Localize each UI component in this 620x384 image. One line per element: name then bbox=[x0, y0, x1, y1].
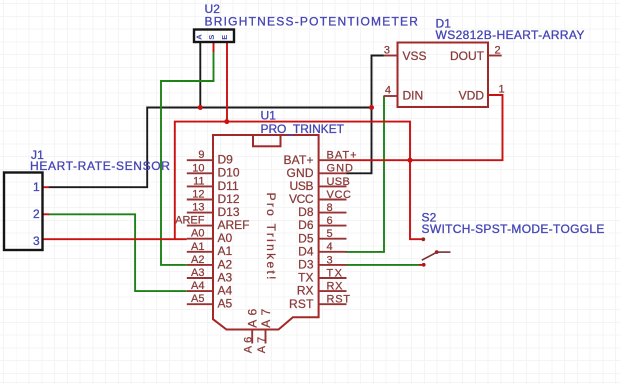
svg-text:RST: RST bbox=[327, 294, 351, 306]
svg-text:4: 4 bbox=[327, 241, 333, 253]
svg-text:USB: USB bbox=[327, 176, 350, 188]
svg-text:GND: GND bbox=[327, 163, 354, 175]
svg-text:GND: GND bbox=[287, 166, 314, 180]
svg-text:9: 9 bbox=[198, 149, 204, 161]
svg-text:3: 3 bbox=[33, 234, 40, 248]
svg-text:A2: A2 bbox=[191, 254, 204, 266]
svg-text:VDD: VDD bbox=[459, 89, 485, 103]
svg-text:D3: D3 bbox=[298, 258, 314, 272]
svg-text:A1: A1 bbox=[191, 241, 204, 253]
svg-text:A0: A0 bbox=[218, 231, 233, 245]
svg-text:10: 10 bbox=[192, 162, 204, 174]
svg-text:PRO_TRINKET: PRO_TRINKET bbox=[261, 122, 345, 136]
svg-text:D13: D13 bbox=[218, 205, 240, 219]
svg-text:A1: A1 bbox=[218, 244, 233, 258]
svg-text:SWITCH-SPST-MODE-TOGGLE: SWITCH-SPST-MODE-TOGGLE bbox=[422, 222, 605, 236]
svg-text:1: 1 bbox=[499, 84, 505, 96]
svg-text:RX: RX bbox=[327, 281, 344, 293]
svg-text:A3: A3 bbox=[218, 270, 233, 284]
svg-text:6: 6 bbox=[327, 215, 333, 227]
svg-text:D4: D4 bbox=[298, 244, 314, 258]
svg-text:A6: A6 bbox=[246, 308, 260, 327]
svg-text:DOUT: DOUT bbox=[450, 49, 485, 63]
svg-text:4: 4 bbox=[385, 85, 391, 97]
svg-text:U1: U1 bbox=[261, 109, 277, 123]
svg-text:E: E bbox=[220, 35, 229, 40]
svg-text:A3: A3 bbox=[191, 267, 204, 279]
svg-text:RST: RST bbox=[289, 297, 314, 311]
svg-text:D5: D5 bbox=[298, 231, 314, 245]
svg-text:VCC: VCC bbox=[289, 192, 314, 206]
svg-text:D10: D10 bbox=[218, 166, 240, 180]
svg-text:A7: A7 bbox=[259, 308, 273, 327]
svg-text:D9: D9 bbox=[218, 153, 234, 167]
svg-text:12: 12 bbox=[192, 189, 204, 201]
svg-text:VCC: VCC bbox=[327, 189, 352, 201]
svg-text:8: 8 bbox=[327, 202, 333, 214]
svg-text:A6: A6 bbox=[242, 337, 254, 354]
svg-text:2: 2 bbox=[495, 45, 501, 57]
svg-text:11: 11 bbox=[193, 175, 204, 187]
svg-text:2: 2 bbox=[33, 207, 40, 221]
svg-text:D8: D8 bbox=[298, 205, 314, 219]
svg-text:D6: D6 bbox=[298, 218, 314, 232]
svg-text:3: 3 bbox=[384, 45, 390, 57]
svg-text:A2: A2 bbox=[218, 257, 233, 271]
svg-text:TX: TX bbox=[327, 267, 343, 279]
svg-text:A4: A4 bbox=[191, 280, 204, 292]
svg-text:5: 5 bbox=[327, 228, 333, 240]
svg-text:RX: RX bbox=[297, 284, 314, 298]
svg-text:TX: TX bbox=[298, 271, 313, 285]
svg-text:1: 1 bbox=[33, 180, 40, 194]
svg-text:A4: A4 bbox=[218, 284, 233, 298]
svg-text:A: A bbox=[195, 34, 204, 40]
svg-text:A5: A5 bbox=[218, 297, 233, 311]
svg-text:DIN: DIN bbox=[403, 89, 424, 103]
svg-text:D11: D11 bbox=[218, 179, 239, 193]
svg-text:BAT+: BAT+ bbox=[327, 150, 357, 162]
svg-text:BRIGHTNESS-POTENTIOMETER: BRIGHTNESS-POTENTIOMETER bbox=[205, 14, 419, 28]
svg-text:VSS: VSS bbox=[403, 49, 427, 63]
svg-text:AREF: AREF bbox=[175, 215, 205, 227]
svg-text:WS2812B-HEART-ARRAY: WS2812B-HEART-ARRAY bbox=[436, 28, 585, 42]
svg-text:S: S bbox=[207, 35, 216, 40]
svg-text:A7: A7 bbox=[256, 337, 268, 354]
svg-text:13: 13 bbox=[192, 202, 204, 214]
svg-text:HEART-RATE-SENSOR: HEART-RATE-SENSOR bbox=[30, 159, 170, 173]
svg-text:D12: D12 bbox=[218, 192, 240, 206]
svg-text:AREF: AREF bbox=[218, 218, 250, 232]
svg-text:BAT+: BAT+ bbox=[284, 153, 314, 167]
svg-text:A0: A0 bbox=[191, 228, 204, 240]
svg-text:3: 3 bbox=[327, 254, 333, 266]
svg-text:USB: USB bbox=[290, 179, 314, 193]
svg-text:Pro Trinket!: Pro Trinket! bbox=[264, 193, 278, 280]
svg-text:A5: A5 bbox=[191, 293, 204, 305]
